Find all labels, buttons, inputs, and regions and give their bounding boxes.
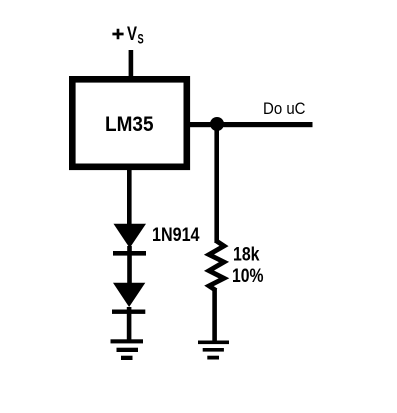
resistor R1	[209, 241, 224, 291]
svg-text:S: S	[138, 32, 144, 47]
svg-text:1N914: 1N914	[152, 224, 200, 246]
wire node to resistor R1	[214, 127, 219, 243]
wire resistor R1 to ground	[212, 289, 217, 341]
resistor R1 value 18k 10%	[232, 244, 264, 288]
svg-text:18k: 18k	[233, 244, 260, 266]
svg-text:Do uC: Do uC	[263, 100, 306, 118]
wire Vs to LM35 top pin	[129, 50, 134, 80]
svg-text:LM35: LM35	[105, 113, 154, 136]
IC U1 label LM35	[105, 113, 154, 136]
wire D1 to D2	[127, 246, 132, 284]
net label Do uC	[263, 100, 306, 118]
IC U1 LM35 body	[72, 79, 187, 167]
wire LM35 bottom pin to diode D1	[127, 167, 132, 225]
ground left	[111, 339, 144, 360]
svg-text:10%: 10%	[232, 265, 264, 287]
svg-text:V: V	[127, 24, 137, 45]
ground right	[198, 341, 229, 360]
wire output LM35 to right	[190, 122, 313, 127]
node output junction	[210, 117, 224, 131]
supply +Vs	[112, 24, 143, 47]
diode D1 1N914	[113, 224, 146, 256]
diode D2 1N914	[112, 283, 145, 314]
wire D2 to ground	[127, 307, 132, 341]
label 1N914	[152, 224, 200, 246]
